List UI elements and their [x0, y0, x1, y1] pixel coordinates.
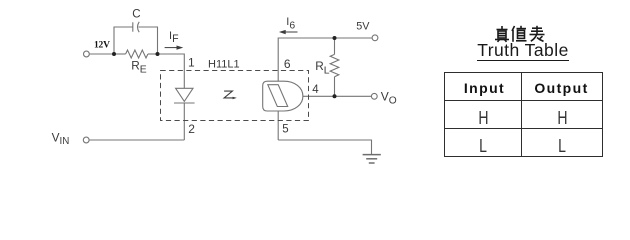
svg-text:RL: RL — [315, 59, 330, 76]
optical coupling arrow (Z symbol) — [224, 91, 234, 98]
svg-text:VIN: VIN — [52, 131, 70, 147]
title 真值表 (hand-drawn CJK strokes) — [495, 26, 545, 42]
hysteresis symbol inside gate — [268, 85, 288, 107]
pin 4 wire gate output to node D — [303, 95, 335, 97]
wire capacitor to node B — [139, 27, 158, 54]
wire node D to VO terminal — [335, 95, 372, 97]
resistor RL — [330, 38, 339, 96]
row H / H — [445, 100, 603, 128]
svg-text:I6: I6 — [286, 16, 295, 31]
node A junction dot — [112, 52, 116, 56]
svg-text:2: 2 — [188, 122, 195, 136]
svg-text:C: C — [132, 9, 140, 21]
值 — [512, 26, 527, 42]
wire node B to pin 1 corner — [158, 54, 185, 88]
terminal VIN — [83, 137, 89, 143]
svg-text:4: 4 — [312, 84, 319, 96]
current arrow I6 (pointing left) — [281, 31, 298, 34]
wire node A up to capacitor branch — [114, 27, 133, 54]
真 — [495, 26, 509, 42]
schmitt trigger gate U1 output buffer — [263, 81, 303, 111]
terminal VO — [371, 93, 377, 99]
terminal 12V input — [84, 51, 90, 57]
pin 5 wire from gate down — [277, 111, 279, 140]
LED D1 anode-cathode — [174, 88, 195, 103]
truth table — [444, 72, 603, 158]
node C junction dot (RL top, 5V rail) — [333, 36, 337, 40]
svg-text:12V: 12V — [94, 41, 110, 51]
current arrow IF — [165, 46, 182, 49]
ground symbol — [363, 155, 381, 163]
row L / L — [445, 129, 603, 157]
svg-text:H11L1: H11L1 — [208, 58, 240, 70]
svg-text:5: 5 — [282, 123, 288, 135]
wire 12V terminal to node A — [89, 53, 114, 55]
svg-text:IF: IF — [169, 30, 179, 45]
optocoupler U1 H11L1 dashed package outline — [161, 71, 309, 121]
node B junction dot — [156, 52, 160, 56]
svg-text:VO: VO — [381, 89, 397, 106]
svg-text:RE: RE — [131, 58, 147, 75]
terminal 5V — [372, 35, 378, 41]
wire VIN terminal to pin 2 rail — [89, 139, 184, 141]
wire 5V rail junction to 5V terminal — [335, 37, 373, 39]
svg-text:5V: 5V — [356, 21, 370, 33]
pin 6 wire from gate up to 5V rail — [278, 38, 334, 81]
capacitor C — [133, 22, 139, 32]
svg-text:1: 1 — [188, 56, 195, 70]
resistor RE — [114, 50, 158, 58]
wire LED cathode through pin 2 down to bottom rail — [183, 103, 185, 140]
title Truth Table — [444, 40, 602, 60]
wire pin 5 to ground stem — [278, 140, 371, 154]
svg-text:6: 6 — [284, 57, 291, 71]
表 — [530, 26, 545, 42]
header row Input / Output — [445, 72, 603, 157]
node D junction dot (RL bottom, VO) — [333, 94, 337, 98]
